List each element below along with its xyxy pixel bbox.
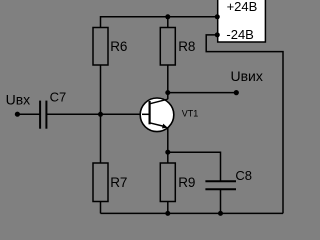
capacitor C7 <box>40 101 46 129</box>
svg-text:R7: R7 <box>110 175 127 190</box>
wire output from collector node <box>168 92 237 94</box>
wire collector lead into transistor <box>167 93 169 100</box>
svg-text:R9: R9 <box>178 175 195 190</box>
node collector junction <box>165 90 170 95</box>
transistor VT1 <box>140 98 174 132</box>
capacitor C8 <box>205 181 236 189</box>
node emitter junction <box>165 150 170 155</box>
wire R6 to R7 through base node <box>100 65 102 163</box>
wire R8 top lead <box>167 17 169 28</box>
wire input terminal to C7 <box>17 113 40 115</box>
node +24V terminal <box>215 14 220 19</box>
wire emitter node to C8 <box>168 152 221 181</box>
svg-text:C8: C8 <box>235 168 252 183</box>
svg-text:Uвих: Uвих <box>231 68 263 84</box>
wire R8 bottom lead to collector node <box>167 65 169 93</box>
wire C7 to base node <box>47 113 101 115</box>
wire top rail +24V <box>101 17 218 28</box>
svg-text:VT1: VT1 <box>182 109 199 119</box>
wire C8 bottom lead <box>220 189 222 213</box>
svg-text:C7: C7 <box>50 89 67 104</box>
node input terminal <box>15 112 20 117</box>
node R9 bottom junction <box>165 211 170 216</box>
resistor R8 <box>160 28 175 66</box>
node output terminal <box>234 90 239 95</box>
resistor R9 <box>160 163 175 202</box>
svg-text:Uвх: Uвх <box>6 92 31 108</box>
node C8 bottom junction <box>218 211 223 216</box>
node base junction <box>98 112 103 117</box>
wire -24V to right edge down to bottom rail <box>206 35 283 214</box>
wire R7 bottom lead <box>100 202 102 214</box>
svg-text:R8: R8 <box>178 39 195 54</box>
node R8 top rail junction <box>165 14 170 19</box>
resistor R6 <box>93 28 108 66</box>
wire emitter lead down to emitter node <box>167 128 169 153</box>
svg-text:R6: R6 <box>110 39 127 54</box>
wire R9 bottom lead <box>167 202 169 214</box>
wire bottom rail <box>101 212 284 214</box>
node -24V terminal <box>215 32 220 37</box>
svg-text:+24В: +24В <box>227 0 258 14</box>
wire emitter node to R9 <box>167 152 169 163</box>
power supply box <box>218 0 266 42</box>
wire base node to transistor base <box>101 113 150 115</box>
svg-text:-24В: -24В <box>226 27 253 42</box>
resistor R7 <box>93 163 108 202</box>
